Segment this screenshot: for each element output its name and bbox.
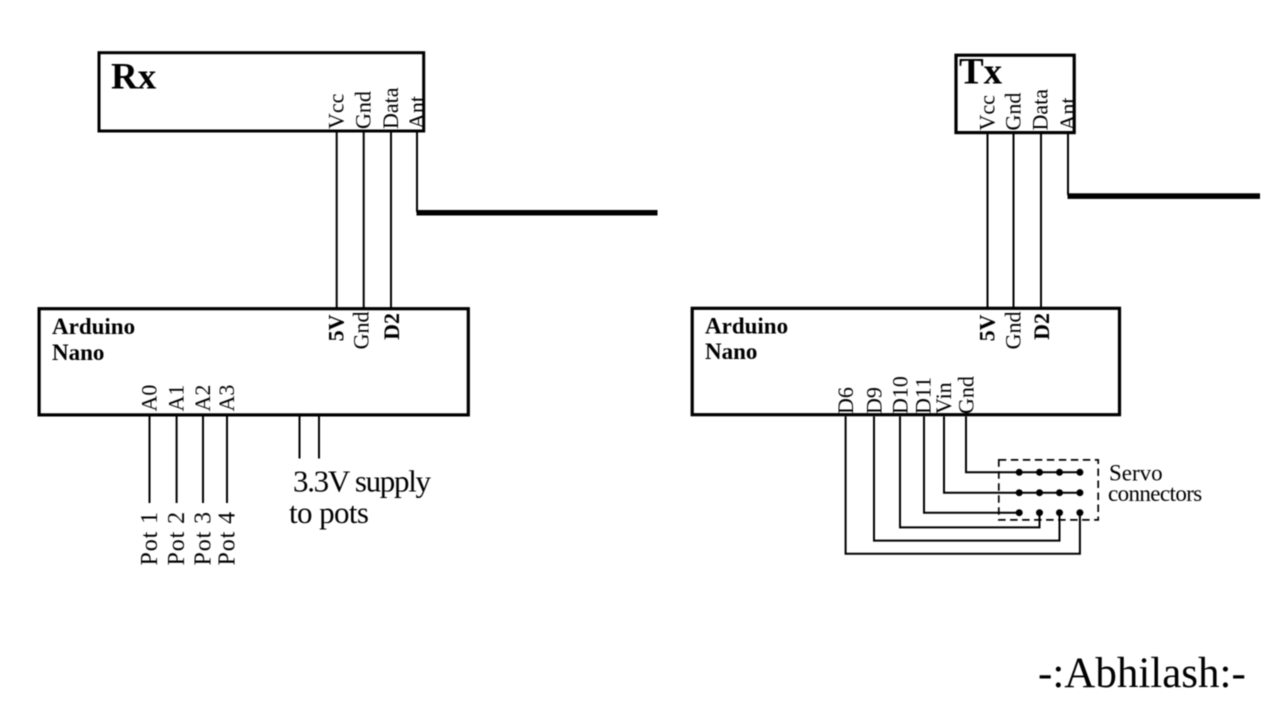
svg-text:Data: Data (1028, 89, 1053, 131)
svg-text:Gnd: Gnd (351, 91, 376, 129)
svg-text:Arduino: Arduino (705, 314, 788, 339)
svg-text:Nano: Nano (705, 339, 757, 364)
svg-text:Gnd: Gnd (1000, 93, 1025, 131)
svg-text:Gnd: Gnd (954, 376, 979, 414)
svg-text:Vcc: Vcc (975, 95, 1000, 131)
wire A2 to Pot 3 (202, 416, 204, 503)
wire D10 to servo row3 dot2 (900, 416, 1040, 527)
wire Rx Vcc to Nano 5V (336, 131, 338, 309)
wire 3.3V supply lead 2 (318, 416, 320, 458)
wire D9 to servo row3 dot3 (874, 416, 1060, 540)
svg-text:Pot 3: Pot 3 (191, 511, 217, 566)
svg-text:D2: D2 (1029, 313, 1054, 340)
svg-text:Nano: Nano (52, 340, 104, 365)
wire D6 to servo row3 dot4 (846, 416, 1080, 553)
svg-text:Vcc: Vcc (324, 93, 349, 129)
wire Tx Ant lead (1067, 134, 1069, 195)
svg-text:D9: D9 (862, 387, 887, 414)
wire Tx Vcc to Nano 5V (987, 134, 989, 308)
wire Rx Data to Nano D2 (390, 131, 392, 309)
antenna Tx (thick wire) (1068, 193, 1261, 199)
svg-text:Pot 1: Pot 1 (137, 511, 163, 566)
svg-text:Arduino: Arduino (52, 314, 135, 339)
svg-text:Pot 4: Pot 4 (215, 511, 241, 566)
servo header dots row 1 (1016, 469, 1084, 476)
svg-text:D6: D6 (833, 387, 858, 414)
svg-text:Ant: Ant (404, 96, 429, 129)
svg-text:connectors: connectors (1108, 481, 1202, 506)
svg-text:D10: D10 (888, 376, 913, 414)
module Tx (transmitter box) (956, 55, 1074, 132)
wire Gnd to servo row1 (966, 416, 1080, 472)
svg-text:A3: A3 (214, 385, 239, 412)
servo header dots row 2 (1016, 489, 1084, 496)
wire Rx Ant lead (416, 131, 418, 212)
svg-text:A1: A1 (164, 385, 189, 412)
svg-text:-:Abhilash:-: -:Abhilash:- (1038, 650, 1246, 697)
svg-text:A2: A2 (190, 385, 215, 412)
module Arduino Nano (right) (692, 308, 1119, 414)
wire Vin to servo row2 (944, 416, 1080, 492)
svg-text:A0: A0 (137, 385, 162, 412)
wire Tx Data to Nano D2 (1040, 134, 1042, 308)
svg-text:5V: 5V (324, 314, 349, 341)
wire A0 to Pot 1 (149, 416, 151, 503)
wire D11 to servo row3 dot1 (924, 416, 1019, 512)
wire A3 to Pot 4 (226, 416, 228, 503)
svg-text:3.3V supply: 3.3V supply (293, 464, 432, 499)
svg-text:Ant: Ant (1055, 98, 1080, 131)
svg-text:Gnd: Gnd (1001, 312, 1026, 350)
wire A1 to Pot 2 (176, 416, 178, 503)
module Rx (receiver box) (99, 53, 424, 131)
servo connector outline (dashed) (999, 460, 1098, 520)
wire Rx Gnd to Nano Gnd (363, 131, 365, 309)
svg-text:Tx: Tx (959, 52, 1003, 93)
svg-text:Data: Data (378, 87, 403, 129)
antenna Rx (thick wire) (417, 210, 658, 216)
svg-text:Pot 2: Pot 2 (164, 511, 190, 566)
servo header dots row 3 (1016, 509, 1084, 516)
svg-text:D2: D2 (379, 313, 404, 340)
wire 3.3V supply lead 1 (299, 416, 301, 458)
svg-text:5V: 5V (974, 314, 999, 341)
svg-text:Vin: Vin (931, 382, 956, 414)
module Arduino Nano (left) (39, 309, 468, 415)
wire Tx Gnd to Nano Gnd (1013, 134, 1015, 308)
svg-text:to pots: to pots (289, 495, 368, 530)
svg-text:Gnd: Gnd (349, 312, 374, 350)
svg-text:Rx: Rx (111, 57, 157, 98)
